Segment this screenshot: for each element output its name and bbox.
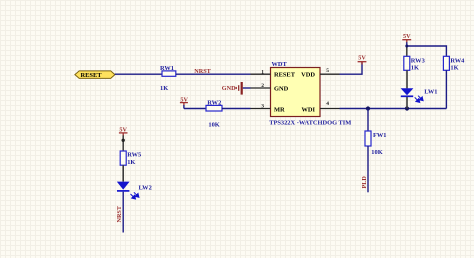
resistor R3 : RW3 — [404, 56, 425, 71]
svg-text:1K: 1K — [160, 85, 168, 92]
svg-text:RESET: RESET — [81, 72, 103, 79]
wire 5V rail split — [405, 45, 446, 57]
resistor R4 : RW4 — [443, 56, 465, 71]
svg-text:1: 1 — [261, 69, 264, 75]
resistor R1 : RW1 — [160, 65, 176, 92]
net label NRST (rotated) — [116, 205, 123, 222]
svg-text:RW3: RW3 — [411, 57, 425, 64]
wire pin4 WDI bus — [340, 108, 447, 110]
net label NRST — [194, 68, 211, 75]
junction at FW1 branch — [366, 106, 370, 110]
svg-text:WDI: WDI — [302, 107, 316, 114]
wire RW1 to pin1 — [176, 73, 251, 75]
resistor R5 : FW1 — [365, 131, 387, 156]
wire LW2 to NRST — [122, 192, 124, 233]
port RESET — [75, 71, 115, 79]
svg-text:10K: 10K — [208, 121, 219, 128]
pin 4 WDI — [302, 101, 340, 114]
svg-text:RESET: RESET — [274, 72, 296, 79]
LED LW2 — [117, 182, 152, 199]
svg-text:5V: 5V — [358, 55, 366, 62]
svg-text:VDD: VDD — [301, 72, 315, 79]
wire RW3 to LED LW1 — [406, 70, 408, 88]
svg-text:1K: 1K — [127, 159, 135, 166]
wire RW5 to LED LW2 — [122, 165, 124, 181]
power ground GND — [222, 82, 242, 95]
net label PLD (rotated) — [361, 176, 368, 189]
power 5V (LW2 rail) — [119, 127, 128, 151]
svg-text:RW1: RW1 — [160, 65, 174, 72]
pin 5 VDD — [301, 68, 339, 78]
svg-text:RW4: RW4 — [450, 57, 465, 64]
LED LW1 — [401, 88, 438, 108]
svg-text:MR: MR — [274, 107, 285, 114]
svg-text:GND: GND — [274, 86, 289, 93]
svg-text:10K: 10K — [371, 149, 382, 156]
wire RESET to RW1 — [115, 73, 162, 75]
wire RW2 to pin3 — [222, 108, 251, 110]
resistor R6 : RW5 — [120, 151, 141, 166]
svg-text:TPS322X -WATCHDOG TIM: TPS322X -WATCHDOG TIM — [269, 119, 351, 126]
svg-text:4: 4 — [326, 101, 329, 107]
svg-text:LW2: LW2 — [139, 184, 152, 191]
svg-text:RW5: RW5 — [127, 152, 141, 159]
junction at LED branch — [405, 106, 409, 110]
svg-text:LW1: LW1 — [424, 89, 437, 96]
pin 2 GND — [251, 83, 289, 92]
pin 3 MR — [251, 104, 286, 114]
wire pin5 to 5V — [340, 62, 363, 74]
svg-text:NRST: NRST — [116, 205, 123, 222]
wire 5V to RW2 — [184, 108, 206, 110]
resistor R2 : RW2 — [206, 100, 222, 129]
IC WDT TPS322X body — [269, 61, 351, 126]
wire FW1 to PLD — [367, 146, 369, 192]
svg-text:3: 3 — [261, 104, 264, 110]
wire RW4 to WDI bus — [445, 70, 447, 108]
wire FW1 branch down — [367, 109, 369, 132]
svg-text:PLD: PLD — [361, 176, 368, 189]
svg-text:1K: 1K — [450, 65, 458, 72]
power 5V (VDD) — [358, 55, 367, 65]
svg-text:WDT: WDT — [272, 61, 288, 68]
power 5V (LED rail) — [402, 33, 411, 46]
svg-text:1K: 1K — [411, 65, 419, 72]
wire GND to pin2 — [243, 87, 251, 89]
svg-text:5: 5 — [326, 68, 329, 74]
svg-text:NRST: NRST — [194, 68, 211, 75]
svg-text:5V: 5V — [403, 33, 411, 40]
pin 1 RESET — [251, 69, 296, 78]
svg-text:GND: GND — [222, 85, 236, 92]
svg-text:FW1: FW1 — [373, 132, 387, 139]
svg-text:RW2: RW2 — [207, 100, 221, 107]
svg-text:2: 2 — [261, 83, 264, 89]
power 5V (MR pull-up) — [180, 96, 189, 108]
